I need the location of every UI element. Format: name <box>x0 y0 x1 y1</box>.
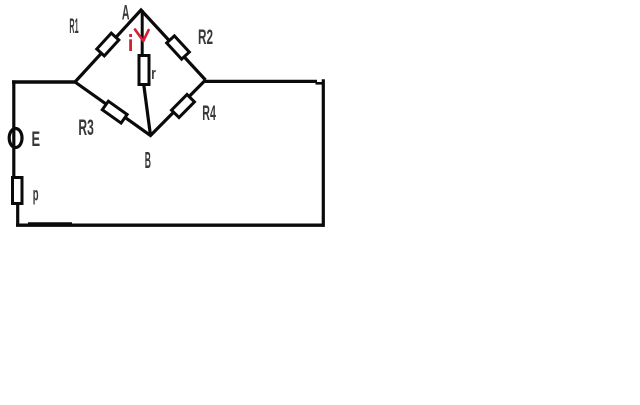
resistor R3 <box>102 101 127 123</box>
wire: right vertical rail <box>322 79 325 227</box>
wire: below resistor p down to bottom rail <box>16 204 19 227</box>
wire: bottom rail <box>16 223 325 226</box>
svg-text:B: B <box>145 147 151 173</box>
resistor R1 <box>97 33 119 56</box>
svg-text:R3: R3 <box>78 115 93 140</box>
svg-text:r: r <box>151 64 156 83</box>
source E (circle) <box>9 129 22 148</box>
resistor R2 <box>167 36 190 59</box>
wire: bottom rail overlap stroke (hand-drawn jog) <box>28 222 72 224</box>
svg-text:E: E <box>32 127 41 151</box>
resistor p <box>13 178 23 204</box>
resistor R4 <box>172 94 195 117</box>
svg-text:R2: R2 <box>198 25 213 49</box>
wire: left horizontal from battery branch to node L <box>12 80 75 83</box>
current arrow head (red V) <box>135 30 149 42</box>
svg-text:R1: R1 <box>69 14 78 38</box>
wire: small jog at top-right corner <box>316 82 325 85</box>
wire: bottom edges of bridge L-B and B-R <box>75 80 206 136</box>
wire: from resistor r down to node B <box>144 85 151 136</box>
svg-text:A: A <box>122 2 130 25</box>
svg-text:R4: R4 <box>202 102 216 125</box>
current label i (red) <box>129 34 132 51</box>
wire: top edges of bridge A-L and A-R <box>75 10 206 82</box>
resistor r (galvanometer branch) <box>139 56 149 85</box>
wire: right horizontal from node R <box>204 80 317 83</box>
wire: left vertical down to source E <box>12 80 15 177</box>
wire: center branch from node A down to resistor r <box>141 10 144 56</box>
svg-text:p: p <box>33 184 39 206</box>
